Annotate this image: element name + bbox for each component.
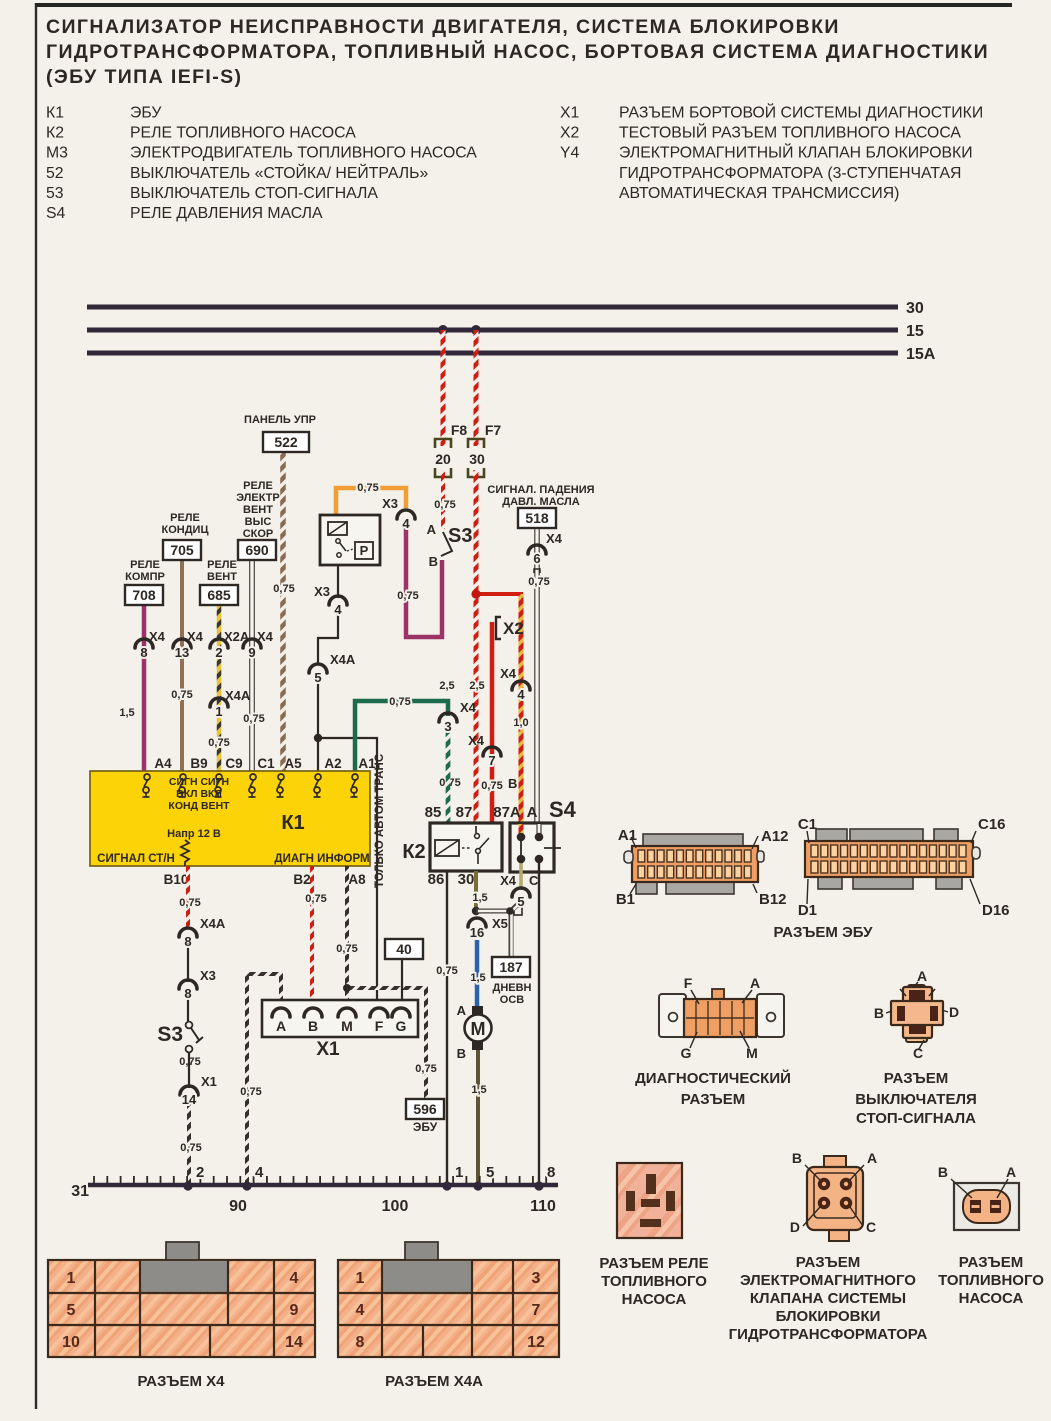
svg-text:690: 690: [245, 542, 269, 558]
svg-text:РЕЛЕ ДАВЛЕНИЯ МАСЛА: РЕЛЕ ДАВЛЕНИЯ МАСЛА: [130, 205, 323, 222]
svg-text:РАЗЪЕМ: РАЗЪЕМ: [884, 1070, 948, 1087]
svg-text:М3: М3: [46, 145, 68, 162]
svg-text:14: 14: [182, 1092, 197, 1107]
svg-text:ДИАГНОСТИЧЕСКИЙ: ДИАГНОСТИЧЕСКИЙ: [635, 1069, 791, 1087]
svg-text:15: 15: [906, 323, 924, 340]
svg-text:СТОП-СИГНАЛА: СТОП-СИГНАЛА: [856, 1110, 976, 1127]
svg-text:В: В: [508, 776, 517, 791]
svg-text:P: P: [360, 543, 369, 558]
svg-text:А: А: [867, 1150, 877, 1166]
svg-text:1: 1: [67, 1270, 76, 1287]
svg-text:В12: В12: [759, 891, 787, 908]
svg-text:АВТОМАТИЧЕСКАЯ ТРАНСМИССИЯ): АВТОМАТИЧЕСКАЯ ТРАНСМИССИЯ): [619, 185, 899, 202]
svg-text:8: 8: [140, 645, 147, 660]
svg-text:F: F: [375, 1018, 384, 1034]
svg-text:X4A: X4A: [200, 916, 226, 931]
svg-text:Напр 12 В: Напр 12 В: [167, 828, 221, 840]
svg-text:708: 708: [132, 587, 156, 603]
svg-text:S4: S4: [549, 797, 577, 822]
svg-text:100: 100: [382, 1198, 409, 1215]
svg-text:К1: К1: [46, 105, 64, 122]
svg-text:8: 8: [184, 986, 191, 1001]
svg-text:0,75: 0,75: [179, 897, 200, 909]
svg-text:В: В: [938, 1164, 948, 1180]
svg-text:X4: X4: [500, 873, 517, 888]
svg-text:0,75: 0,75: [171, 689, 192, 701]
svg-text:0,75: 0,75: [481, 780, 502, 792]
svg-text:4: 4: [402, 516, 410, 531]
svg-text:РАЗЪЕМ Х4А: РАЗЪЕМ Х4А: [385, 1373, 483, 1390]
svg-text:В2: В2: [293, 872, 310, 887]
svg-text:ЭЛЕКТР: ЭЛЕКТР: [236, 492, 280, 504]
svg-text:8: 8: [184, 934, 191, 949]
svg-text:А: А: [1006, 1164, 1016, 1180]
svg-text:30: 30: [458, 871, 475, 888]
svg-text:187: 187: [499, 959, 523, 975]
svg-text:К2: К2: [46, 125, 64, 142]
svg-text:5: 5: [517, 894, 524, 909]
svg-text:16: 16: [470, 925, 484, 940]
svg-text:БЛОКИРОВКИ: БЛОКИРОВКИ: [776, 1308, 881, 1325]
svg-text:Y4: Y4: [560, 145, 580, 162]
svg-text:А: А: [917, 968, 927, 984]
svg-text:30: 30: [906, 300, 924, 317]
svg-text:0,75: 0,75: [436, 965, 457, 977]
svg-text:8: 8: [547, 1164, 555, 1181]
svg-text:0,75: 0,75: [528, 576, 549, 588]
svg-text:С1: С1: [798, 816, 817, 833]
svg-text:31: 31: [71, 1183, 89, 1200]
svg-text:СИГНАЛ СТ/Н: СИГНАЛ СТ/Н: [97, 853, 175, 865]
svg-text:РЕЛЕ: РЕЛЕ: [243, 480, 273, 492]
svg-text:14: 14: [285, 1334, 303, 1351]
svg-text:8: 8: [356, 1334, 365, 1351]
svg-text:D16: D16: [982, 902, 1010, 919]
svg-text:F7: F7: [485, 422, 502, 438]
svg-text:С: С: [529, 873, 539, 888]
svg-text:87А: 87А: [493, 804, 521, 821]
svg-text:ЭБУ: ЭБУ: [130, 105, 162, 122]
svg-text:G: G: [396, 1018, 407, 1034]
svg-text:40: 40: [396, 941, 412, 957]
svg-text:S4: S4: [46, 205, 66, 222]
svg-text:ПАНЕЛЬ УПР: ПАНЕЛЬ УПР: [244, 414, 316, 426]
svg-text:К2: К2: [402, 841, 425, 863]
svg-text:4: 4: [334, 602, 342, 617]
svg-text:D: D: [949, 1004, 959, 1020]
svg-text:ТОЛЬКО АВТОМ ТРАНС: ТОЛЬКО АВТОМ ТРАНС: [374, 754, 386, 888]
svg-text:РЕЛЕ: РЕЛЕ: [130, 559, 160, 571]
svg-text:1,5: 1,5: [470, 972, 485, 984]
svg-text:X2: X2: [503, 619, 524, 638]
svg-text:4: 4: [517, 687, 525, 702]
svg-text:КОНДИЦ: КОНДИЦ: [162, 524, 209, 536]
svg-text:РАЗЪЕМ: РАЗЪЕМ: [681, 1091, 745, 1108]
svg-text:Х2: Х2: [560, 125, 579, 142]
svg-text:0,75: 0,75: [208, 737, 229, 749]
svg-text:F8: F8: [451, 422, 468, 438]
svg-text:53: 53: [46, 185, 64, 202]
svg-text:90: 90: [229, 1198, 247, 1215]
svg-text:0,75: 0,75: [243, 713, 264, 725]
svg-text:30: 30: [469, 451, 485, 467]
svg-text:ВКЛ ВКЛ: ВКЛ ВКЛ: [176, 788, 222, 800]
svg-text:М: М: [471, 1019, 486, 1039]
svg-text:ВЕНТ: ВЕНТ: [207, 571, 237, 583]
svg-text:1,0: 1,0: [513, 717, 528, 729]
svg-text:X4: X4: [500, 666, 517, 681]
svg-text:0,75: 0,75: [273, 583, 294, 595]
svg-text:ЭЛЕКТРОМАГНИТНЫЙ КЛАПАН БЛОКИР: ЭЛЕКТРОМАГНИТНЫЙ КЛАПАН БЛОКИРОВКИ: [619, 143, 973, 162]
svg-text:ЭЛЕКТРОДВИГАТЕЛЬ ТОПЛИВНОГО НА: ЭЛЕКТРОДВИГАТЕЛЬ ТОПЛИВНОГО НАСОСА: [130, 145, 477, 162]
svg-text:685: 685: [207, 587, 231, 603]
svg-text:КОМПР: КОМПР: [125, 571, 165, 583]
svg-text:1,5: 1,5: [472, 892, 487, 904]
svg-text:2,5: 2,5: [469, 680, 484, 692]
svg-text:ВЫС: ВЫС: [245, 516, 272, 528]
svg-text:В1: В1: [616, 891, 635, 908]
svg-text:12: 12: [527, 1334, 545, 1351]
svg-text:ВЫКЛЮЧАТЕЛЬ СТОП-СИГНАЛА: ВЫКЛЮЧАТЕЛЬ СТОП-СИГНАЛА: [130, 185, 378, 202]
svg-text:СИГНАЛИЗАТОР НЕИСПРАВНОСТИ ДВИ: СИГНАЛИЗАТОР НЕИСПРАВНОСТИ ДВИГАТЕЛЯ, СИ…: [46, 16, 840, 38]
svg-text:2: 2: [215, 645, 222, 660]
svg-text:СИГН СИГН: СИГН СИГН: [169, 776, 229, 788]
svg-text:М: М: [341, 1018, 353, 1034]
svg-text:В10: В10: [164, 872, 189, 887]
svg-text:С: С: [866, 1219, 876, 1235]
svg-text:87: 87: [456, 804, 473, 821]
svg-text:СИГНАЛ. ПАДЕНИЯ: СИГНАЛ. ПАДЕНИЯ: [487, 484, 594, 496]
svg-text:ДНЕВН: ДНЕВН: [492, 982, 531, 994]
svg-text:ВЕНТ: ВЕНТ: [243, 504, 273, 516]
svg-text:X3: X3: [382, 496, 398, 511]
svg-text:ЭЛЕКТРОМАГНИТНОГО: ЭЛЕКТРОМАГНИТНОГО: [740, 1272, 916, 1289]
svg-text:10: 10: [62, 1334, 80, 1351]
svg-text:86: 86: [428, 871, 445, 888]
svg-text:7: 7: [488, 753, 495, 768]
svg-text:1,5: 1,5: [471, 1084, 486, 1096]
svg-text:С16: С16: [978, 816, 1006, 833]
svg-text:РЕЛЕ: РЕЛЕ: [170, 512, 200, 524]
svg-text:РЕЛЕ ТОПЛИВНОГО НАСОСА: РЕЛЕ ТОПЛИВНОГО НАСОСА: [130, 125, 356, 142]
svg-text:X3: X3: [200, 968, 216, 983]
svg-text:А2: А2: [324, 756, 341, 771]
svg-text:596: 596: [413, 1101, 437, 1117]
svg-text:5: 5: [486, 1164, 494, 1181]
svg-text:5: 5: [67, 1302, 76, 1319]
svg-text:3: 3: [444, 719, 451, 734]
svg-text:D: D: [790, 1219, 800, 1235]
svg-text:ТЕСТОВЫЙ РАЗЪЕМ ТОПЛИВНОГО НАС: ТЕСТОВЫЙ РАЗЪЕМ ТОПЛИВНОГО НАСОСА: [619, 123, 961, 142]
svg-text:СКОР: СКОР: [243, 528, 274, 540]
svg-text:ГИДРОТРАНСФОРМАТОРА, ТОПЛИВНЫЙ: ГИДРОТРАНСФОРМАТОРА, ТОПЛИВНЫЙ НАСОС, БО…: [46, 39, 989, 63]
svg-text:3: 3: [532, 1270, 541, 1287]
svg-text:РАЗЪЕМ РЕЛЕ: РАЗЪЕМ РЕЛЕ: [599, 1255, 708, 1272]
svg-text:6: 6: [533, 551, 540, 566]
svg-text:А12: А12: [761, 828, 789, 845]
svg-text:0,75: 0,75: [305, 893, 326, 905]
svg-text:705: 705: [170, 542, 194, 558]
svg-text:РАЗЪЕМ Х4: РАЗЪЕМ Х4: [138, 1373, 226, 1390]
svg-text:522: 522: [274, 434, 298, 450]
svg-text:0,75: 0,75: [336, 943, 357, 955]
svg-text:13: 13: [175, 645, 189, 660]
svg-text:С9: С9: [225, 756, 242, 771]
svg-text:0,75: 0,75: [434, 499, 455, 511]
svg-text:0,75: 0,75: [180, 1142, 201, 1154]
svg-text:4: 4: [255, 1164, 264, 1181]
svg-text:0,75: 0,75: [240, 1086, 261, 1098]
svg-text:К1: К1: [281, 812, 304, 834]
svg-text:В: В: [308, 1018, 318, 1034]
svg-text:ГИДРОТРАНСФОРМАТОРА: ГИДРОТРАНСФОРМАТОРА: [729, 1326, 928, 1343]
svg-text:В: В: [457, 1046, 466, 1061]
svg-text:А4: А4: [154, 756, 172, 771]
svg-text:НАСОСА: НАСОСА: [959, 1290, 1024, 1307]
svg-text:А: А: [527, 804, 538, 821]
svg-text:А: А: [457, 1003, 467, 1018]
svg-text:1: 1: [215, 704, 222, 719]
svg-text:РАЗЪЕМ: РАЗЪЕМ: [959, 1254, 1023, 1271]
svg-text:1: 1: [356, 1270, 365, 1287]
svg-text:7: 7: [532, 1302, 541, 1319]
svg-text:РАЗЪЕМ: РАЗЪЕМ: [796, 1254, 860, 1271]
svg-text:А8: А8: [348, 872, 366, 887]
svg-text:S3: S3: [157, 1023, 183, 1046]
svg-text:ОСВ: ОСВ: [500, 994, 525, 1006]
svg-text:НАСОСА: НАСОСА: [622, 1291, 687, 1308]
svg-text:0,75: 0,75: [389, 696, 410, 708]
svg-text:52: 52: [46, 165, 64, 182]
svg-text:5: 5: [314, 670, 321, 685]
svg-text:X4A: X4A: [225, 688, 251, 703]
svg-text:X4: X4: [546, 531, 563, 546]
svg-text:1,5: 1,5: [119, 707, 134, 719]
svg-text:S3: S3: [448, 525, 472, 547]
svg-text:РАЗЪЕМ ЭБУ: РАЗЪЕМ ЭБУ: [773, 924, 873, 941]
svg-text:85: 85: [425, 804, 442, 821]
svg-text:В: В: [874, 1005, 884, 1021]
svg-text:ГИДРОТРАНСФОРМАТОРА (3-СТУПЕНЧ: ГИДРОТРАНСФОРМАТОРА (3-СТУПЕНЧАТАЯ: [619, 165, 961, 182]
svg-text:А: А: [427, 522, 437, 537]
svg-text:РАЗЪЕМ БОРТОВОЙ СИСТЕМЫ ДИАГНО: РАЗЪЕМ БОРТОВОЙ СИСТЕМЫ ДИАГНОСТИКИ: [619, 103, 983, 122]
svg-text:КОНД ВЕНТ: КОНД ВЕНТ: [168, 800, 230, 812]
svg-text:В: В: [429, 554, 438, 569]
svg-text:С: С: [913, 1045, 923, 1061]
svg-text:X5: X5: [492, 916, 508, 931]
svg-text:А5: А5: [284, 756, 302, 771]
svg-text:2,5: 2,5: [439, 680, 454, 692]
svg-text:Х1: Х1: [560, 105, 580, 122]
svg-text:А: А: [750, 975, 760, 991]
svg-text:9: 9: [290, 1302, 299, 1319]
svg-text:518: 518: [525, 510, 549, 526]
svg-text:В9: В9: [190, 756, 207, 771]
svg-text:С1: С1: [257, 756, 275, 771]
svg-text:0,75: 0,75: [357, 482, 378, 494]
svg-text:0,75: 0,75: [397, 590, 418, 602]
svg-text:(ЭБУ ТИПА IEFI-S): (ЭБУ ТИПА IEFI-S): [46, 66, 242, 88]
svg-text:ВЫКЛЮЧАТЕЛЬ «СТОЙКА/ НЕЙТРАЛЬ»: ВЫКЛЮЧАТЕЛЬ «СТОЙКА/ НЕЙТРАЛЬ»: [130, 163, 428, 182]
svg-text:0,75: 0,75: [415, 1063, 436, 1075]
svg-text:X1: X1: [201, 1074, 217, 1089]
svg-text:1: 1: [455, 1164, 463, 1181]
svg-text:В: В: [792, 1150, 802, 1166]
svg-text:А: А: [276, 1018, 286, 1034]
svg-text:ДИАГН ИНФОРМ: ДИАГН ИНФОРМ: [274, 853, 369, 865]
svg-text:X3: X3: [314, 584, 330, 599]
svg-text:F: F: [684, 975, 693, 991]
svg-text:4: 4: [356, 1302, 365, 1319]
svg-text:D1: D1: [798, 902, 817, 919]
svg-text:X4: X4: [468, 733, 485, 748]
svg-text:110: 110: [530, 1198, 556, 1215]
svg-text:2: 2: [196, 1164, 204, 1181]
svg-text:А1: А1: [618, 827, 637, 844]
svg-text:4: 4: [290, 1270, 299, 1287]
svg-text:X4A: X4A: [330, 652, 356, 667]
svg-text:КЛАПАНА СИСТЕМЫ: КЛАПАНА СИСТЕМЫ: [750, 1290, 906, 1307]
svg-text:Х1: Х1: [316, 1039, 340, 1060]
svg-text:20: 20: [435, 451, 451, 467]
svg-text:РЕЛЕ: РЕЛЕ: [207, 559, 237, 571]
svg-text:ВЫКЛЮЧАТЕЛЯ: ВЫКЛЮЧАТЕЛЯ: [855, 1091, 977, 1108]
svg-text:15А: 15А: [906, 346, 936, 363]
svg-text:ТОПЛИВНОГО: ТОПЛИВНОГО: [938, 1272, 1044, 1289]
svg-text:ТОПЛИВНОГО: ТОПЛИВНОГО: [601, 1273, 707, 1290]
svg-text:X4: X4: [460, 700, 477, 715]
svg-text:ДАВЛ. МАСЛА: ДАВЛ. МАСЛА: [502, 496, 580, 508]
svg-text:9: 9: [248, 645, 255, 660]
svg-text:ЭБУ: ЭБУ: [413, 1120, 438, 1134]
